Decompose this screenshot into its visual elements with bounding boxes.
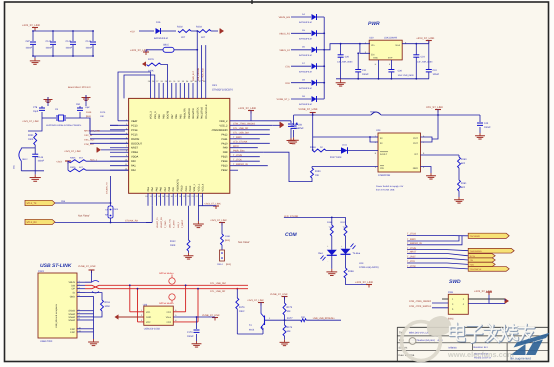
- svg-text:TDO/SWO: TDO/SWO: [470, 235, 481, 238]
- svg-text:VBAT: VBAT: [131, 120, 138, 123]
- svg-text:VSSA: VSSA: [131, 151, 138, 154]
- svg-text:10K: 10K: [287, 330, 292, 333]
- svg-text:USB_Micro-B receptacle: USB_Micro-B receptacle: [55, 303, 58, 328]
- svg-text:STLK_RX: STLK_RX: [27, 221, 38, 224]
- svg-text:+3V3_ST_LINK: +3V3_ST_LINK: [22, 120, 39, 123]
- svg-text:C145: C145: [66, 40, 72, 43]
- svg-text:+3V3_ST_LINK: +3V3_ST_LINK: [247, 299, 264, 302]
- svg-text:1uF_X5R_0603: 1uF_X5R_0603: [417, 60, 433, 63]
- svg-text:PB8: PB8: [162, 114, 165, 119]
- svg-text:PB12: PB12: [189, 185, 192, 192]
- svg-text:PB5: PB5: [179, 114, 182, 119]
- svg-text:life.augmented: life.augmented: [510, 356, 531, 360]
- svg-text:CN3: CN3: [448, 291, 453, 294]
- svg-text:VDDA: VDDA: [131, 156, 138, 159]
- svg-text:PA7: PA7: [164, 186, 167, 191]
- svg-text:GND: GND: [413, 167, 419, 170]
- svg-text:8K2: 8K2: [461, 186, 466, 189]
- svg-text:PA11: PA11: [222, 138, 229, 141]
- svg-text:PA9: PA9: [223, 147, 228, 150]
- svg-text:BYP: BYP: [388, 57, 393, 60]
- svg-text:VUSB_ST_LINK: VUSB_ST_LINK: [78, 265, 96, 268]
- svg-text:R175: R175: [100, 111, 106, 114]
- svg-text:LED_STLINK: LED_STLINK: [233, 141, 248, 144]
- svg-text:PA6: PA6: [160, 186, 163, 191]
- svg-text:PA8: PA8: [223, 151, 228, 154]
- svg-text:[N/A]: [N/A]: [86, 115, 91, 118]
- svg-text:LED_STL: LED_STL: [168, 218, 171, 228]
- svg-text:Shield: Shield: [68, 319, 75, 322]
- svg-text:100K: 100K: [28, 138, 34, 141]
- svg-text:100nF: 100nF: [46, 47, 53, 50]
- svg-text:USB17000I: USB17000I: [40, 340, 53, 343]
- svg-text:VDD_3: VDD_3: [150, 111, 153, 119]
- svg-text:R197: R197: [341, 221, 347, 224]
- svg-text:C26: C26: [398, 70, 403, 73]
- svg-text:BAT60JFILM: BAT60JFILM: [299, 87, 312, 90]
- svg-text:10pF: 10pF: [85, 106, 91, 109]
- svg-text:JTMS/SWDIO: JTMS/SWDIO: [211, 129, 227, 132]
- svg-text:100nF: 100nF: [26, 47, 33, 50]
- svg-text:USART_TX: USART_TX: [156, 217, 159, 228]
- svg-text:BAT60JFILM: BAT60JFILM: [299, 38, 312, 41]
- svg-text:PCLOCKCLE: PCLOCKCLE: [205, 104, 208, 119]
- svg-text:100nF: 100nF: [86, 47, 93, 50]
- svg-text:C40: C40: [484, 122, 489, 125]
- svg-text:R201: R201: [28, 134, 34, 137]
- svg-text:BAT60JFILM: BAT60JFILM: [299, 21, 312, 24]
- svg-text:C142: C142: [46, 40, 52, 43]
- svg-text:100nF: 100nF: [433, 73, 440, 76]
- svg-text:IST: IST: [414, 153, 418, 156]
- svg-text:Power Switch to supply +5V: Power Switch to supply +5V: [376, 185, 404, 188]
- svg-text:Revision: B-1: Revision: B-1: [474, 346, 489, 349]
- svg-text:PA13JTMS: PA13JTMS: [201, 107, 204, 119]
- svg-text:OUT: OUT: [413, 142, 419, 145]
- svg-text:PC13: PC13: [131, 124, 138, 127]
- svg-text:STL_USB_DP: STL_USB_DP: [233, 127, 249, 130]
- svg-text:BOOT0: BOOT0: [167, 110, 170, 119]
- svg-text:Red: Red: [318, 252, 323, 255]
- svg-text:PA1: PA1: [131, 165, 136, 168]
- svg-text:PB11: PB11: [185, 185, 188, 191]
- svg-text:PA4: PA4: [151, 186, 154, 191]
- svg-text:FAULT: FAULT: [380, 153, 388, 156]
- svg-text:VSS_1: VSS_1: [193, 183, 196, 191]
- svg-text:STL_USB_DM: STL_USB_DM: [210, 282, 226, 285]
- svg-text:T.MS/SWDIO: T.MS/SWDIO: [470, 250, 482, 253]
- svg-text:[N/A]: [N/A]: [226, 263, 231, 266]
- svg-text:USB ST-LINK: USB ST-LINK: [40, 263, 72, 269]
- svg-text:ON: ON: [380, 167, 384, 170]
- svg-text:PB7: PB7: [171, 114, 174, 119]
- svg-text:100nF: 100nF: [294, 127, 301, 130]
- svg-text:PWR_ENn: PWR_ENn: [233, 150, 245, 153]
- svg-text:STM_JTMS_SWDIO: STM_JTMS_SWDIO: [233, 123, 255, 126]
- svg-text:PB3JTDO: PB3JTDO: [188, 108, 191, 119]
- svg-text:+3V3: +3V3: [56, 161, 62, 164]
- svg-text:PWR: PWR: [368, 21, 380, 27]
- svg-text:BAT60JFILM: BAT60JFILM: [154, 37, 168, 40]
- svg-text:ST1INK_RX: ST1INK_RX: [125, 220, 138, 223]
- svg-text:+3V3_ST_LINK: +3V3_ST_LINK: [64, 150, 81, 153]
- svg-text:OSCIN: OSCIN: [131, 138, 139, 141]
- svg-text:CN14: CN14: [217, 263, 223, 266]
- svg-text:VDD_2: VDD_2: [219, 120, 228, 123]
- svg-text:R118: R118: [105, 301, 111, 304]
- svg-text:R179: R179: [239, 306, 245, 309]
- svg-text:ST890CDR: ST890CDR: [378, 174, 390, 177]
- svg-text:D5V: D5V: [285, 82, 290, 85]
- svg-text:8K2: 8K2: [461, 162, 466, 165]
- svg-text:PA12: PA12: [221, 133, 228, 136]
- svg-text:COM: COM: [285, 232, 298, 238]
- svg-text:R181: R181: [225, 235, 231, 238]
- svg-text:VDD_4: VDD_4: [202, 183, 205, 191]
- svg-text:Not Fitted: Not Fitted: [238, 241, 250, 244]
- svg-text:R148: R148: [310, 146, 316, 149]
- svg-text:VBUS_F2: VBUS_F2: [279, 49, 290, 52]
- svg-text:R202: R202: [177, 26, 183, 29]
- svg-text:ESP: ESP: [70, 331, 75, 334]
- svg-text:PB13: PB13: [221, 165, 228, 168]
- svg-text:100K: 100K: [170, 244, 176, 247]
- svg-text:+3V3_ST_LINK: +3V3_ST_LINK: [416, 37, 434, 40]
- svg-text:I/O2: I/O2: [167, 321, 172, 324]
- svg-text:PB4NJTR: PB4NJTR: [184, 108, 187, 119]
- svg-text:M'B046: M'B046: [449, 346, 458, 349]
- svg-text:GND: GND: [70, 295, 76, 298]
- svg-text:EN: EN: [371, 54, 375, 57]
- svg-text:PB15: PB15: [221, 156, 228, 159]
- svg-text:PB1: PB1: [172, 186, 175, 191]
- svg-text:PB6: PB6: [175, 114, 178, 119]
- svg-text:R198: R198: [348, 270, 354, 273]
- svg-text:U20: U20: [369, 37, 374, 40]
- svg-text:4K7: 4K7: [201, 36, 206, 39]
- svg-text:NRST: NRST: [131, 147, 138, 150]
- svg-text:GND: GND: [373, 57, 378, 60]
- svg-text:www.elecfans.com: www.elecfans.com: [447, 350, 514, 359]
- svg-text:+3V3_ST_LINK: +3V3_ST_LINK: [210, 219, 227, 222]
- svg-text:1uF_X5R_0603: 1uF_X5R_0603: [337, 60, 353, 63]
- svg-text:R203: R203: [196, 26, 202, 29]
- svg-text:R196: R196: [327, 221, 333, 224]
- svg-text:C170: C170: [187, 331, 193, 334]
- svg-text:NX3225GD-8.00M-EXS00A-CG04874: NX3225GD-8.00M-EXS00A-CG04874: [46, 124, 82, 127]
- svg-text:PA0: PA0: [131, 160, 136, 163]
- svg-text:T_SWO: T_SWO: [164, 220, 167, 228]
- svg-text:C87: C87: [26, 40, 31, 43]
- svg-text:C20: C20: [345, 56, 350, 59]
- svg-text:T_JTCK: T_JTCK: [233, 159, 242, 162]
- svg-text:C31: C31: [362, 69, 367, 72]
- svg-text:PA2: PA2: [131, 169, 136, 172]
- svg-text:SB12: SB12: [22, 158, 28, 161]
- svg-text:IN: IN: [380, 137, 383, 140]
- svg-text:E5V: E5V: [285, 65, 290, 68]
- svg-text:USART_RX: USART_RX: [160, 216, 163, 228]
- svg-text:PB9: PB9: [158, 114, 161, 119]
- svg-text:SWD: SWD: [449, 279, 461, 285]
- svg-text:10nF X5R_0603: 10nF X5R_0603: [398, 74, 415, 77]
- svg-text:IN: IN: [380, 142, 383, 145]
- svg-text:VBUS_HG: VBUS_HG: [279, 16, 291, 19]
- svg-text:PC15: PC15: [131, 133, 138, 136]
- svg-text:100K: 100K: [105, 305, 111, 308]
- svg-text:R30D: R30D: [70, 166, 76, 169]
- svg-text:PA14JTCK: PA14JTCK: [196, 107, 199, 119]
- svg-text:I/O2: I/O2: [146, 321, 151, 324]
- svg-text:10K2: 10K2: [239, 310, 245, 313]
- svg-text:R161: R161: [461, 182, 467, 185]
- svg-text:100nF: 100nF: [187, 335, 194, 338]
- svg-text:U5V_ST_LINK: U5V_ST_LINK: [426, 106, 443, 109]
- svg-text:Tri-blue: Tri-blue: [353, 252, 361, 255]
- svg-text:STM_JTMS_SWDIO: STM_JTMS_SWDIO: [409, 300, 431, 303]
- svg-text:R149: R149: [86, 111, 92, 114]
- svg-text:PA5: PA5: [155, 186, 158, 191]
- svg-text:R176: R176: [287, 326, 293, 329]
- svg-text:TDO: TDO: [470, 264, 475, 267]
- svg-text:Vbus: Vbus: [166, 316, 172, 319]
- svg-text:CN24: CN24: [113, 208, 119, 211]
- svg-text:I/O1: I/O1: [146, 311, 151, 314]
- svg-text:SB15: SB15: [163, 44, 170, 47]
- svg-text:10K: 10K: [315, 174, 320, 177]
- svg-text:R176: R176: [148, 58, 154, 61]
- svg-text:SB05: SB05: [370, 111, 376, 114]
- svg-text:PWR_EXT: PWR_EXT: [192, 70, 195, 81]
- svg-text:BAT60JFILM: BAT60JFILM: [299, 54, 312, 57]
- svg-text:R175: R175: [287, 306, 293, 309]
- svg-text:T_JRST: T_JRST: [173, 220, 176, 228]
- svg-text:C78: C78: [33, 106, 38, 109]
- svg-text:VUSB_ST_LINK: VUSB_ST_LINK: [270, 293, 288, 296]
- svg-text:TCK/SWCLK: TCK/SWCLK: [470, 268, 482, 271]
- svg-text:+3V3_ST_LINK: +3V3_ST_LINK: [355, 281, 373, 284]
- svg-text:STLINK_TX: STLINK_TX: [106, 182, 109, 194]
- svg-text:Not Fitted: Not Fitted: [78, 215, 90, 218]
- svg-text:Board Ident: PC13=0: Board Ident: PC13=0: [68, 86, 91, 89]
- svg-text:I/O1: I/O1: [167, 311, 172, 314]
- svg-text:VBUS_FS: VBUS_FS: [279, 33, 290, 36]
- svg-text:CN21: CN21: [38, 270, 45, 273]
- svg-text:VUSB_ST_L: VUSB_ST_L: [276, 98, 290, 101]
- svg-text:U23: U23: [376, 129, 381, 132]
- svg-text:T_JTMS: T_JTMS: [233, 154, 242, 157]
- svg-text:MCO: MCO: [233, 145, 239, 148]
- svg-text:T_NRST: T_NRST: [181, 219, 184, 228]
- svg-text:PB2BOOT1: PB2BOOT1: [176, 178, 179, 191]
- svg-text:TDI: TDI: [470, 259, 474, 262]
- svg-text:100nF: 100nF: [484, 126, 491, 129]
- svg-text:1K: 1K: [320, 146, 323, 149]
- svg-text:OUT: OUT: [413, 137, 419, 140]
- svg-text:100nF: 100nF: [362, 73, 369, 76]
- svg-text:VDD_1: VDD_1: [197, 183, 200, 191]
- svg-text:R150: R150: [315, 170, 321, 173]
- svg-text:2K7: 2K7: [181, 36, 186, 39]
- svg-text:VSS_2: VSS_2: [219, 124, 228, 127]
- svg-text:USBLC6-2SC6: USBLC6-2SC6: [144, 327, 161, 330]
- svg-text:R177: R177: [287, 317, 293, 320]
- svg-text:STLK_TX: STLK_TX: [27, 202, 37, 205]
- svg-text:PA15JTDI: PA15JTDI: [192, 108, 195, 119]
- svg-text:+3V3_ST_LINK: +3V3_ST_LINK: [22, 24, 40, 27]
- svg-text:T_SWDIO_IN: T_SWDIO_IN: [233, 163, 248, 166]
- svg-text:T_JTCK_SCK: T_JTCK_SCK: [202, 67, 205, 81]
- svg-text:GND: GND: [146, 316, 151, 319]
- svg-text:STL_USB_DP: STL_USB_DP: [210, 290, 226, 293]
- svg-text:BAT60JFILM: BAT60JFILM: [299, 103, 312, 106]
- svg-text:C24: C24: [433, 69, 438, 72]
- svg-text:VUSB_ST_LINK: VUSB_ST_LINK: [202, 314, 220, 317]
- svg-text:C56: C56: [298, 124, 303, 127]
- svg-text:MB-LD01-V4-I_U5: MB-LD01-V4-I_U5: [409, 331, 429, 334]
- svg-text:C146: C146: [86, 40, 92, 43]
- svg-text:100nF: 100nF: [66, 47, 73, 50]
- svg-text:PB10: PB10: [181, 185, 184, 192]
- svg-text:PB14: PB14: [221, 160, 228, 163]
- svg-text:R160: R160: [461, 158, 467, 161]
- svg-text:T_SWO: T_SWO: [233, 136, 242, 139]
- svg-text:USB_USB_RENUMn: USB_USB_RENUMn: [313, 317, 335, 320]
- svg-text:LDK120M-R: LDK120M-R: [384, 37, 397, 40]
- svg-text:+3V3_ST_LINK: +3V3_ST_LINK: [238, 107, 256, 110]
- svg-text:STM_JTCK_SWCLK: STM_JTCK_SWCLK: [409, 305, 432, 308]
- svg-text:Vout: Vout: [395, 44, 400, 47]
- svg-text:AIN_1: AIN_1: [177, 221, 180, 228]
- svg-text:LD3: LD3: [359, 262, 364, 265]
- svg-text:OSCOUT: OSCOUT: [131, 142, 143, 145]
- svg-text:LD11: LD11: [342, 144, 348, 147]
- svg-text:USB_RENUM: USB_RENUM: [197, 68, 200, 81]
- svg-text:+3V3_ST_LINK: +3V3_ST_LINK: [204, 203, 221, 206]
- svg-text:VSS_3: VSS_3: [154, 111, 157, 119]
- svg-text:C81: C81: [76, 103, 81, 106]
- svg-text:ID: ID: [73, 292, 76, 295]
- svg-text:10K: 10K: [100, 115, 104, 118]
- svg-text:PA3: PA3: [147, 186, 150, 191]
- svg-text:U21: U21: [212, 84, 217, 87]
- svg-text:BAT60JFILM: BAT60JFILM: [299, 70, 312, 73]
- svg-text:from ST-LINK USB: from ST-LINK USB: [376, 189, 395, 192]
- svg-text:R30A: R30A: [70, 157, 76, 160]
- svg-text:VUSB_ST_LINK: VUSB_ST_LINK: [298, 108, 317, 111]
- svg-text:9013: 9013: [249, 329, 255, 332]
- svg-text:C23: C23: [421, 56, 426, 59]
- svg-text:100nF: 100nF: [38, 160, 45, 163]
- svg-text:R142: R142: [170, 240, 176, 243]
- svg-text:NRST_ST_LINK: NRST_ST_LINK: [84, 130, 101, 133]
- svg-text:PB0: PB0: [168, 186, 171, 191]
- svg-text:PB12: PB12: [221, 169, 228, 172]
- svg-text:10K: 10K: [287, 310, 292, 313]
- svg-text:RST#: RST#: [470, 255, 476, 258]
- svg-text:R147 100K: R147 100K: [330, 156, 342, 159]
- svg-text:[N/A]: [N/A]: [225, 239, 230, 242]
- svg-text:+5V: +5V: [130, 30, 135, 33]
- svg-text:10pF: 10pF: [33, 110, 39, 113]
- svg-text:C146: C146: [38, 156, 44, 159]
- svg-text:PC14: PC14: [131, 129, 138, 132]
- svg-text:PA10: PA10: [221, 142, 228, 145]
- svg-text:STL_USB_DM: STL_USB_DM: [233, 132, 249, 135]
- svg-text:D16: D16: [156, 21, 161, 24]
- svg-text:STM32F103CBT6: STM32F103CBT6: [212, 89, 233, 92]
- svg-text:STMF-A,B(-A00D): STMF-A,B(-A00D): [359, 266, 379, 269]
- svg-text:DP: DP: [72, 288, 76, 291]
